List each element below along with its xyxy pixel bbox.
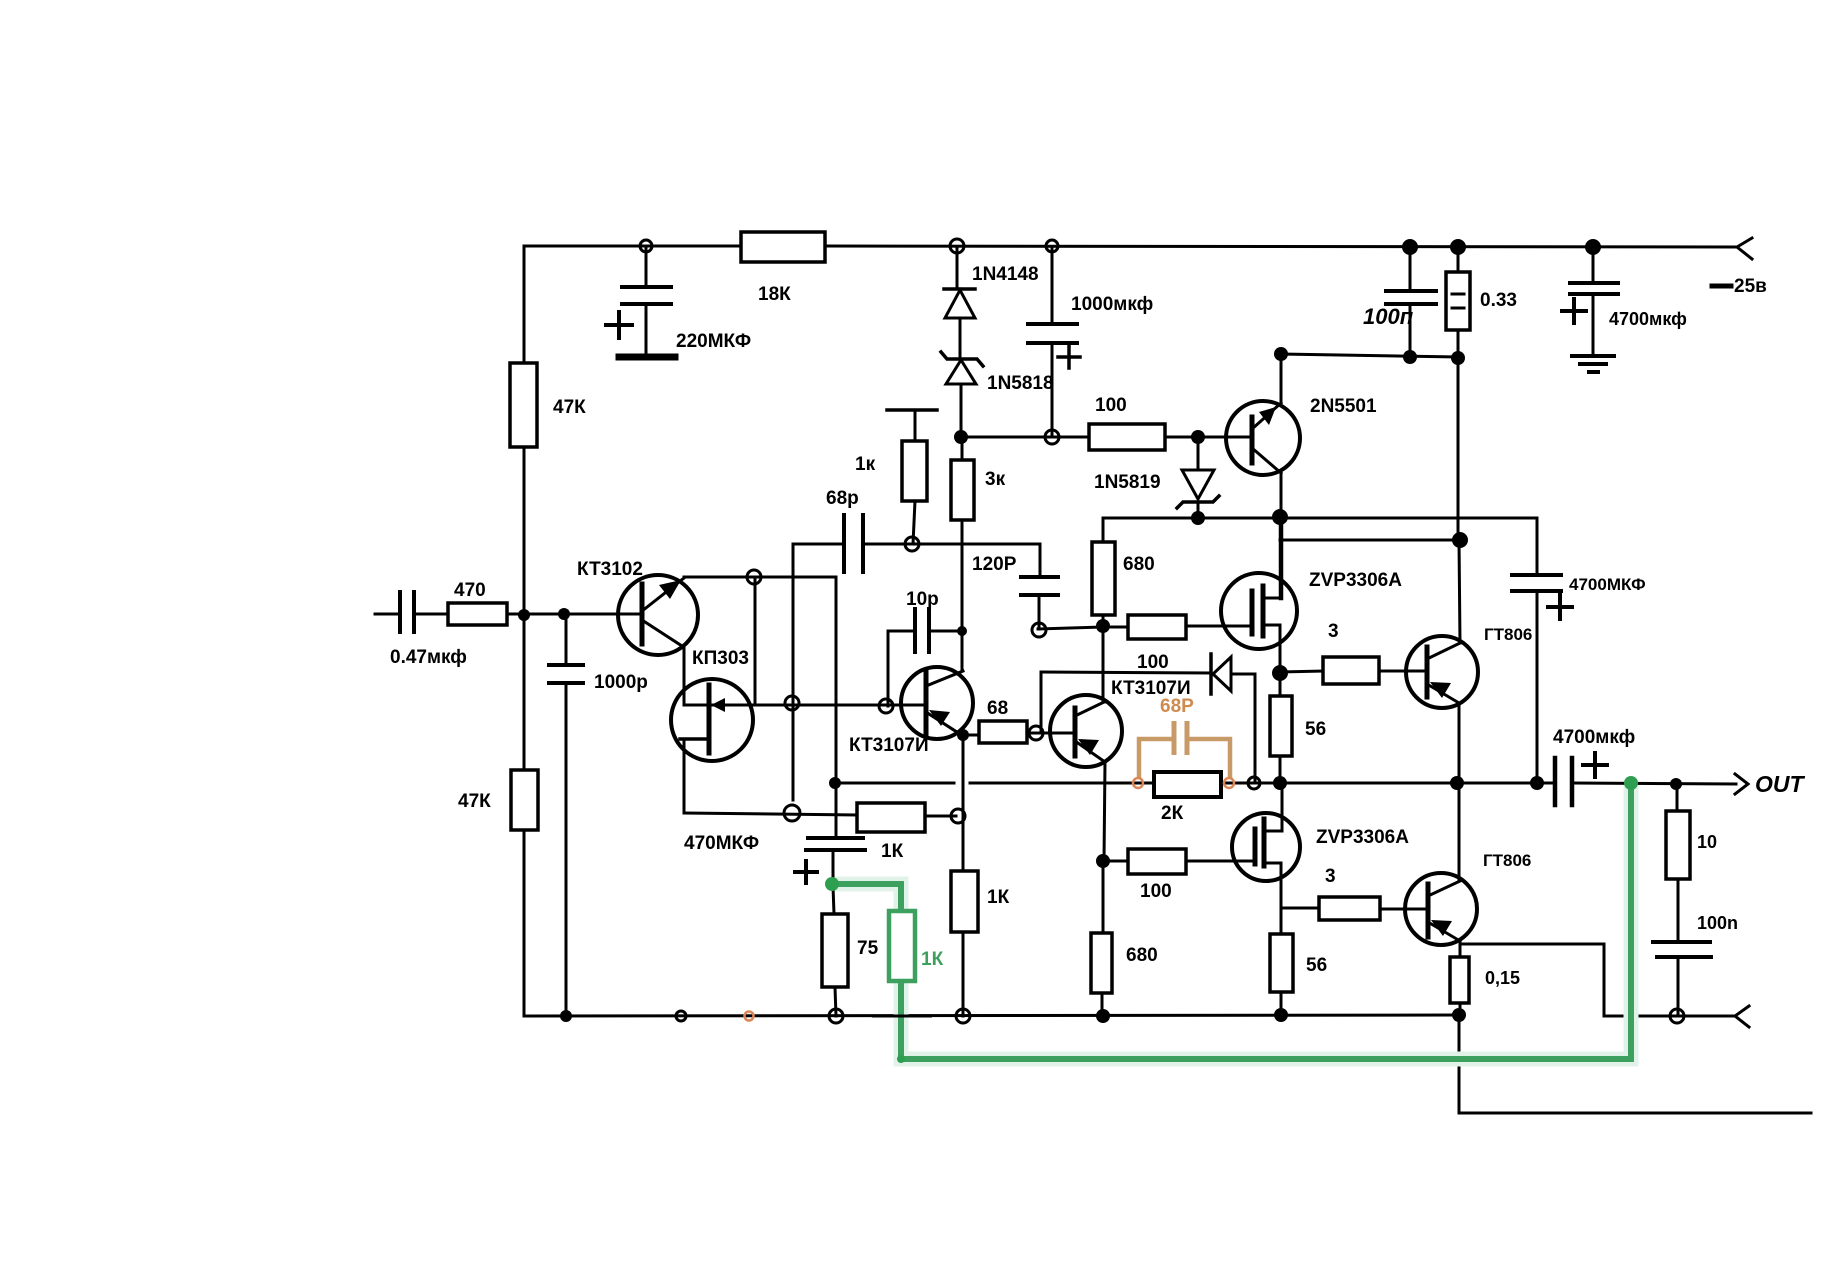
wire gate row top y627 <box>1038 627 1128 629</box>
transistor GT806 top <box>1406 636 1478 708</box>
connector top-right supply terminal <box>1737 238 1752 259</box>
capacitor 470MKF <box>835 782 838 838</box>
resistor 1k vertical <box>887 408 937 412</box>
resistor 0,15 <box>1459 941 1462 957</box>
wire output rail left <box>836 782 954 785</box>
resistor 75 <box>833 886 834 914</box>
wire KT3102 collector drop <box>682 646 684 705</box>
diode 1N5819 right <box>1040 672 1043 733</box>
svg-text:4700МКФ: 4700МКФ <box>1569 575 1646 594</box>
wire KP303 source drop <box>683 739 686 813</box>
svg-text:25в: 25в <box>1734 276 1767 297</box>
svg-text:47К: 47К <box>458 791 491 812</box>
wire KT3107I emitter drop x963 <box>962 736 965 871</box>
junction dots filled <box>518 609 530 621</box>
capacitor 68P orange <box>1172 721 1177 755</box>
transistor 2N5501 <box>1226 401 1300 475</box>
svg-text:КТ3107И: КТ3107И <box>849 735 929 756</box>
resistor 18K <box>741 232 825 262</box>
transistor KT3107I left <box>901 667 973 739</box>
wire y540 row <box>1280 539 1459 542</box>
resistor 3k <box>961 437 964 460</box>
capacitor 4700mkf output <box>1553 758 1558 805</box>
capacitor 120P <box>1039 544 1042 577</box>
wire x1459 column top <box>1459 540 1460 643</box>
mosfet ZVP3306A bottom <box>1232 813 1300 881</box>
capacitor 4700MKF mid <box>1536 518 1539 575</box>
svg-text:2N5501: 2N5501 <box>1310 396 1377 417</box>
wire left column x524 <box>523 246 526 363</box>
svg-text:ZVP3306A: ZVP3306A <box>1309 570 1402 591</box>
resistor 3 bottom <box>1281 907 1319 910</box>
capacitor 220MKF <box>645 247 648 287</box>
wire ground rail over green <box>872 1015 932 1018</box>
wire x836 bootstrap column <box>835 577 838 782</box>
svg-text:18К: 18К <box>758 284 791 305</box>
svg-text:75: 75 <box>857 938 879 959</box>
node open circles <box>640 240 652 252</box>
resistor 68 <box>963 734 979 737</box>
resistor 680 lower <box>1102 861 1105 933</box>
mosfet ZVP3306A top <box>1221 573 1297 649</box>
wire y813 row <box>684 813 857 815</box>
svg-text:10: 10 <box>1697 832 1717 852</box>
svg-text:100: 100 <box>1137 652 1169 673</box>
wire node 437 row <box>961 436 1089 439</box>
node orange left <box>1133 778 1143 788</box>
svg-text:3: 3 <box>1325 866 1336 887</box>
svg-text:1000мкф: 1000мкф <box>1071 294 1153 315</box>
svg-text:4700мкф: 4700мкф <box>1553 727 1635 748</box>
capacitor 1000mkf <box>1051 247 1054 324</box>
capacitor 4700mkf top right <box>1592 247 1595 283</box>
resistor 470 <box>448 603 507 625</box>
wire lower speaker return <box>1459 1015 1811 1113</box>
svg-text:120Р: 120Р <box>972 554 1017 575</box>
svg-text:68: 68 <box>987 698 1008 719</box>
diode 1N4148 <box>956 247 959 289</box>
svg-text:КТ3102: КТ3102 <box>577 559 643 580</box>
svg-text:3: 3 <box>1328 621 1339 642</box>
ground symbol <box>1572 354 1614 358</box>
resistor 1K vertical lower <box>951 871 978 932</box>
capacitor 100n <box>1653 940 1710 944</box>
diode 1N5818 zener <box>941 352 983 366</box>
svg-text:0,15: 0,15 <box>1485 968 1520 988</box>
resistor 56 bottom <box>1280 908 1283 934</box>
diode 1N5819 left <box>1197 437 1200 470</box>
svg-text:56: 56 <box>1305 719 1326 740</box>
svg-text:ГТ806: ГТ806 <box>1484 625 1532 644</box>
wire green feedback <box>835 884 901 911</box>
wire top supply rail left <box>524 245 741 248</box>
svg-text:470МКФ: 470МКФ <box>684 833 759 854</box>
resistor 56 top <box>1279 673 1282 696</box>
capacitor 68p <box>794 543 844 546</box>
svg-text:4700мкф: 4700мкф <box>1609 309 1687 329</box>
wire top supply rail right <box>825 246 1737 247</box>
svg-text:ГТ806: ГТ806 <box>1483 851 1531 870</box>
svg-text:220МКФ: 220МКФ <box>676 331 751 352</box>
capacitor 0.47mkf input <box>375 613 400 616</box>
svg-text:ZVP3306A: ZVP3306A <box>1316 827 1409 848</box>
resistor 47K top <box>510 363 537 447</box>
svg-text:100п: 100п <box>1363 304 1414 329</box>
wire KT3102 emitter row y577 <box>684 576 836 579</box>
node orange ground rail <box>745 1012 754 1021</box>
wire x1458 supply column <box>1457 359 1460 540</box>
resistor 680 top <box>1102 518 1105 542</box>
svg-text:100n: 100n <box>1697 913 1738 933</box>
svg-text:OUT: OUT <box>1755 771 1806 797</box>
resistor 1K horizontal <box>857 803 925 832</box>
resistor 100 mid <box>1128 615 1186 639</box>
svg-text:68р: 68р <box>826 488 859 509</box>
resistor 47K bottom <box>511 770 538 830</box>
wire node 754 drop <box>754 577 757 705</box>
svg-text:2К: 2К <box>1161 803 1184 824</box>
node green junction out <box>1624 776 1638 790</box>
resistor 0.33 <box>1457 247 1460 272</box>
capacitor 1000p <box>565 614 568 665</box>
resistor 2K <box>1154 772 1221 797</box>
wire GT806 bottom emitter to speaker <box>1460 944 1735 1016</box>
transistor KP303 jfet <box>671 679 753 761</box>
svg-text:68Р: 68Р <box>1160 696 1194 717</box>
resistor 3 top <box>1280 671 1323 672</box>
wire gate row y705 <box>684 704 926 707</box>
svg-text:100: 100 <box>1140 881 1172 902</box>
transistor GT806 bottom <box>1405 873 1477 945</box>
svg-text:0.33: 0.33 <box>1480 290 1517 311</box>
resistor 10 <box>1676 784 1679 811</box>
wire x793 branch <box>792 544 795 800</box>
svg-text:1N5818: 1N5818 <box>987 373 1054 394</box>
svg-text:470: 470 <box>454 580 486 601</box>
resistor 1K green <box>889 911 915 981</box>
resistor 100 lower <box>1104 860 1128 863</box>
wire y518 row <box>1103 517 1537 520</box>
arrow OUT <box>1735 774 1748 794</box>
svg-text:1К: 1К <box>921 949 944 970</box>
svg-text:47К: 47К <box>553 397 586 418</box>
svg-text:1N5819: 1N5819 <box>1094 472 1161 493</box>
svg-text:1000р: 1000р <box>594 672 648 693</box>
capacitor 10p <box>913 609 917 652</box>
svg-text:1К: 1К <box>881 841 904 862</box>
svg-text:1к: 1к <box>855 454 876 475</box>
label -25v dash <box>1712 284 1731 289</box>
svg-text:КП303: КП303 <box>692 648 749 669</box>
svg-text:1К: 1К <box>987 887 1010 908</box>
svg-text:1N4148: 1N4148 <box>972 264 1039 285</box>
svg-text:100: 100 <box>1095 395 1127 416</box>
wire green feedback halo <box>835 884 901 911</box>
node orange right <box>1224 778 1234 788</box>
svg-text:0.47мкф: 0.47мкф <box>390 647 467 668</box>
svg-text:3к: 3к <box>985 469 1006 490</box>
svg-text:10р: 10р <box>906 589 939 610</box>
transistor KT3107I mid <box>1050 695 1122 767</box>
svg-text:56: 56 <box>1306 955 1327 976</box>
svg-text:680: 680 <box>1126 945 1158 966</box>
transistor KT3102 <box>618 575 698 655</box>
wire 2N5501 collector row <box>1281 354 1458 357</box>
wire bottom ground rail <box>524 1015 1459 1016</box>
wire x1103 column <box>1103 626 1104 702</box>
node green junction left <box>825 877 839 891</box>
svg-text:680: 680 <box>1123 554 1155 575</box>
capacitor 100p <box>1409 247 1412 291</box>
resistor 100 top <box>1089 424 1165 450</box>
